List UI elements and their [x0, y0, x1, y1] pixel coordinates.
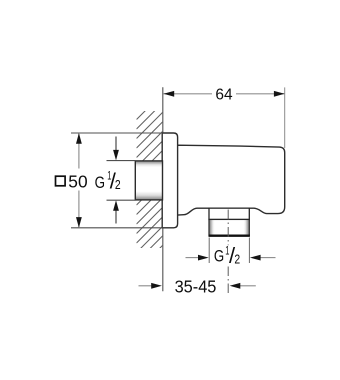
label G 1/2 outlet: [214, 243, 240, 268]
dim 35-45 left arrow: [139, 285, 152, 287]
dim G1/2 outlet left extension: [208, 238, 210, 264]
inlet union: [135, 161, 162, 200]
svg-text:50: 50: [68, 172, 88, 192]
wall hatching lower band: [137, 93, 163, 271]
dimension 64 line: [164, 93, 285, 95]
svg-text:64: 64: [215, 86, 232, 103]
svg-text:2: 2: [234, 251, 240, 266]
square symbol: [56, 176, 66, 186]
flange: [162, 133, 177, 228]
outlet nipple collar: [209, 208, 249, 219]
dim G1/2 inlet up arrow: [115, 209, 117, 224]
svg-text:2: 2: [115, 177, 121, 192]
wall line: [162, 87, 164, 291]
dimension 64 text mask: [212, 86, 236, 100]
dimension 64 extension line right: [284, 87, 286, 148]
dim square50 top extension line: [71, 132, 163, 134]
dim G1/2 inlet down arrow: [115, 137, 117, 153]
label G 1/2 left: [95, 168, 121, 193]
dim square50 bottom extension line: [71, 227, 163, 229]
wall hatching upper band: [137, 93, 163, 271]
dim G1/2 outlet right extension: [248, 238, 250, 264]
outlet nipple bottom edge: [209, 235, 250, 237]
svg-text:G: G: [95, 173, 105, 192]
dim G1/2 outlet right arrow: [260, 257, 276, 259]
dim square50 top arrowhead: [76, 133, 82, 144]
dim 35-45 right arrow: [240, 285, 256, 287]
dim G1/2 inlet bottom extension: [107, 199, 136, 201]
dimension 64 left arrowhead: [164, 91, 175, 97]
dim square50 bottom arrowhead: [76, 217, 82, 228]
dim square50 text mask: [71, 169, 87, 191]
centerline of outlet: [227, 210, 229, 246]
svg-text:G: G: [214, 247, 224, 266]
dim square50 line: [78, 133, 80, 228]
body outline: [177, 145, 284, 215]
outlet nipple thread: [209, 219, 249, 235]
dim G1/2 outlet left arrow: [186, 257, 199, 259]
dim G1/2 inlet top extension: [107, 160, 136, 162]
svg-text:35-45: 35-45: [175, 276, 217, 296]
dimension 64 right arrowhead: [274, 91, 285, 97]
